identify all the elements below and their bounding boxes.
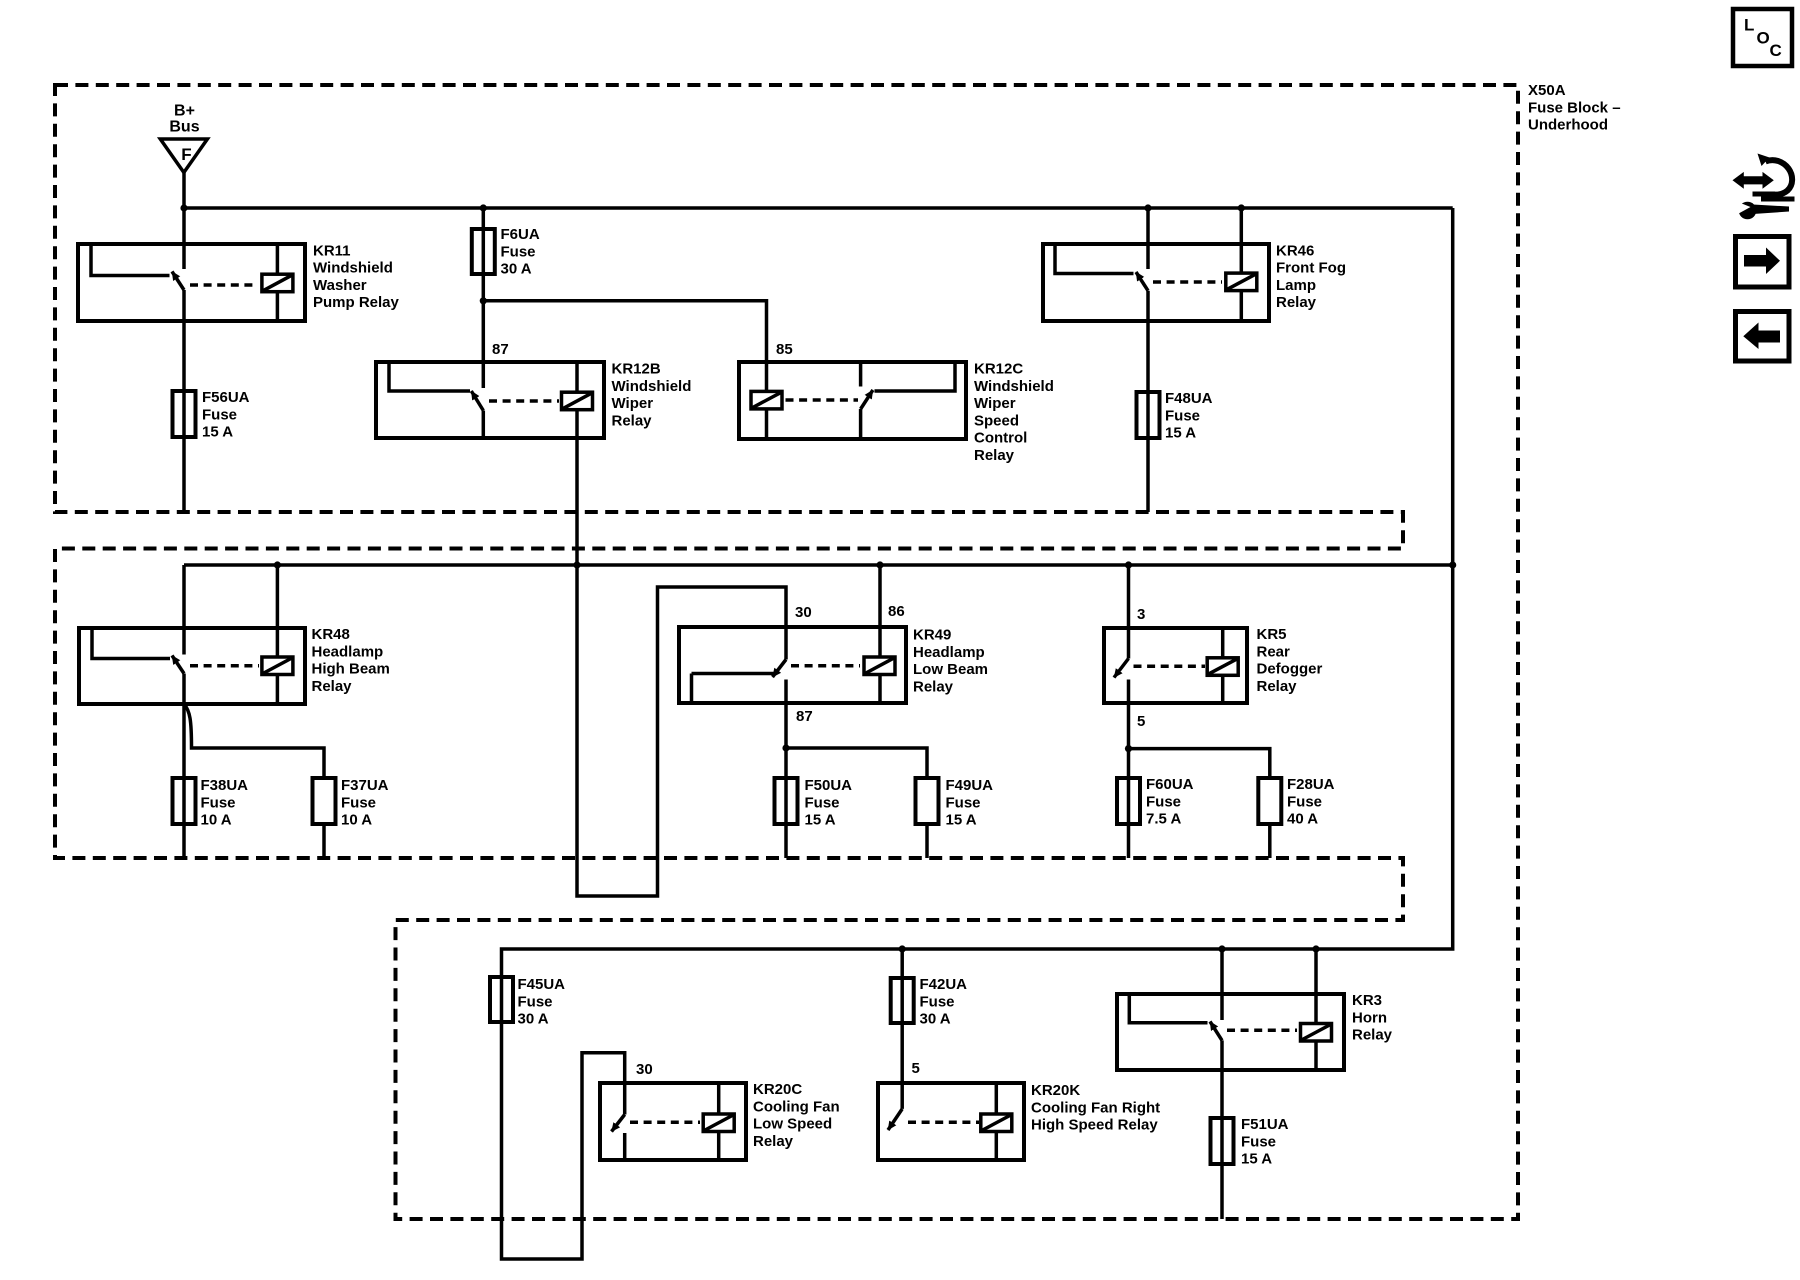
svg-text:F56UA: F56UA [202, 389, 250, 406]
svg-text:KR11: KR11 [313, 242, 351, 259]
svg-text:F60UA: F60UA [1146, 776, 1194, 793]
svg-text:Low Beam: Low Beam [913, 661, 988, 678]
svg-text:Relay: Relay [1352, 1027, 1393, 1044]
svg-text:Fuse: Fuse [920, 993, 955, 1010]
svg-text:Relay: Relay [312, 678, 353, 695]
svg-text:15 A: 15 A [1241, 1151, 1272, 1168]
svg-text:Fuse: Fuse [518, 993, 553, 1010]
svg-text:Fuse: Fuse [501, 243, 536, 260]
svg-text:Windshield: Windshield [612, 378, 692, 395]
svg-text:F49UA: F49UA [946, 777, 994, 794]
svg-text:KR3: KR3 [1352, 992, 1382, 1009]
svg-text:Cooling Fan Right: Cooling Fan Right [1031, 1099, 1160, 1116]
svg-text:Fuse: Fuse [202, 406, 237, 423]
svg-text:Control: Control [974, 430, 1027, 447]
svg-text:KR46: KR46 [1276, 242, 1314, 259]
svg-text:C: C [1770, 41, 1782, 60]
svg-text:Fuse: Fuse [1165, 407, 1200, 424]
svg-text:10 A: 10 A [201, 812, 232, 829]
svg-text:Fuse: Fuse [805, 794, 840, 811]
svg-text:Speed: Speed [974, 412, 1019, 429]
svg-text:KR48: KR48 [312, 626, 350, 643]
svg-text:Rear: Rear [1257, 643, 1291, 660]
svg-text:F6UA: F6UA [501, 226, 540, 243]
svg-text:Fuse: Fuse [1146, 793, 1181, 810]
svg-text:Wiper: Wiper [974, 395, 1016, 412]
svg-text:High Beam: High Beam [312, 661, 390, 678]
svg-text:Wiper: Wiper [612, 395, 654, 412]
svg-text:15 A: 15 A [1165, 425, 1196, 442]
svg-text:KR20K: KR20K [1031, 1082, 1080, 1099]
svg-text:Pump Relay: Pump Relay [313, 294, 400, 311]
svg-text:Windshield: Windshield [313, 260, 393, 277]
svg-text:Front Fog: Front Fog [1276, 260, 1346, 277]
svg-text:Relay: Relay [1257, 678, 1298, 695]
svg-text:Horn: Horn [1352, 1009, 1387, 1026]
svg-text:F51UA: F51UA [1241, 1116, 1289, 1133]
svg-text:15 A: 15 A [946, 812, 977, 829]
svg-text:Cooling Fan: Cooling Fan [753, 1098, 840, 1115]
svg-text:Lamp: Lamp [1276, 277, 1316, 294]
svg-text:B+: B+ [174, 102, 195, 119]
svg-text:KR12B: KR12B [612, 361, 661, 378]
svg-text:F50UA: F50UA [805, 777, 853, 794]
svg-text:KR20C: KR20C [753, 1081, 802, 1098]
svg-text:KR5: KR5 [1257, 626, 1287, 643]
svg-text:15 A: 15 A [202, 424, 233, 441]
svg-text:F42UA: F42UA [920, 976, 968, 993]
svg-text:F37UA: F37UA [341, 777, 389, 794]
svg-text:KR49: KR49 [913, 627, 951, 644]
svg-text:Headlamp: Headlamp [913, 644, 985, 661]
svg-text:Fuse: Fuse [201, 794, 236, 811]
svg-text:Windshield: Windshield [974, 378, 1054, 395]
svg-text:40 A: 40 A [1287, 811, 1318, 828]
svg-text:5: 5 [912, 1060, 920, 1077]
svg-text:3: 3 [1137, 606, 1145, 623]
svg-text:5: 5 [1137, 713, 1145, 730]
svg-text:30: 30 [795, 604, 812, 621]
svg-text:Underhood: Underhood [1528, 117, 1608, 134]
svg-text:Defogger: Defogger [1257, 661, 1323, 678]
svg-text:10 A: 10 A [341, 812, 372, 829]
svg-text:Relay: Relay [1276, 294, 1317, 311]
svg-text:Relay: Relay [612, 412, 653, 429]
svg-text:X50A: X50A [1528, 82, 1566, 99]
svg-text:Bus: Bus [169, 118, 199, 135]
svg-text:7.5 A: 7.5 A [1146, 811, 1181, 828]
svg-text:KR12C: KR12C [974, 361, 1023, 378]
svg-text:Relay: Relay [753, 1133, 794, 1150]
svg-text:Relay: Relay [913, 678, 954, 695]
svg-text:F: F [181, 145, 191, 164]
svg-text:F48UA: F48UA [1165, 390, 1213, 407]
svg-text:Fuse: Fuse [341, 794, 376, 811]
svg-text:30 A: 30 A [920, 1011, 951, 1028]
svg-text:85: 85 [776, 341, 793, 358]
svg-text:86: 86 [888, 603, 905, 620]
svg-text:F38UA: F38UA [201, 777, 249, 794]
svg-text:30: 30 [636, 1061, 653, 1078]
svg-text:87: 87 [796, 708, 813, 725]
svg-text:Low Speed: Low Speed [753, 1116, 832, 1133]
svg-text:30 A: 30 A [518, 1011, 549, 1028]
svg-text:Fuse: Fuse [1287, 793, 1322, 810]
svg-text:O: O [1757, 29, 1770, 48]
svg-text:F45UA: F45UA [518, 976, 566, 993]
svg-text:Relay: Relay [974, 447, 1015, 464]
svg-text:Headlamp: Headlamp [312, 643, 384, 660]
svg-text:15 A: 15 A [805, 812, 836, 829]
svg-text:Fuse: Fuse [1241, 1133, 1276, 1150]
svg-text:High Speed Relay: High Speed Relay [1031, 1117, 1158, 1134]
svg-text:87: 87 [492, 341, 509, 358]
svg-text:Fuse Block –: Fuse Block – [1528, 99, 1621, 116]
svg-text:Washer: Washer [313, 277, 367, 294]
svg-text:Fuse: Fuse [946, 794, 981, 811]
svg-text:F28UA: F28UA [1287, 776, 1335, 793]
svg-text:L: L [1744, 16, 1754, 35]
svg-text:30 A: 30 A [501, 261, 532, 278]
